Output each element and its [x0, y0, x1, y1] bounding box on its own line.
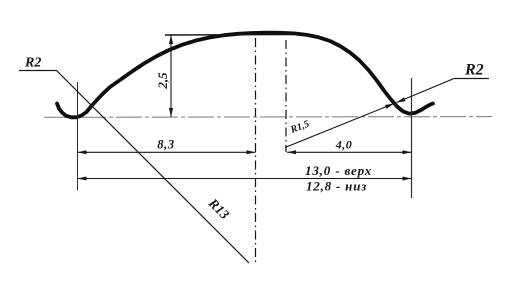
svg-text:2,5: 2,5 — [155, 72, 170, 90]
centerline main — [255, 38, 257, 262]
svg-text:4,0: 4,0 — [335, 138, 353, 152]
leader R2 left — [19, 70, 57, 72]
svg-text:13,0 - верх: 13,0 - верх — [305, 163, 372, 178]
svg-text:R2: R2 — [24, 56, 41, 71]
extension line right — [411, 78, 413, 198]
top extension line — [165, 34, 293, 37]
leader R1,5 — [285, 104, 394, 148]
svg-text:8,3: 8,3 — [157, 138, 174, 152]
profile curve — [57, 33, 433, 118]
svg-text:12,8 - низ: 12,8 - низ — [306, 179, 367, 194]
centerline second — [285, 40, 287, 152]
svg-text:R13: R13 — [205, 195, 232, 222]
radius line R13 — [57, 71, 250, 264]
extension line left — [77, 82, 79, 190]
leader R2 right — [397, 79, 490, 103]
dimension 2,5 line — [169, 35, 173, 117]
dimension 4,0 line — [287, 150, 412, 154]
dimension 13,0/12,8 line — [78, 177, 412, 181]
horizontal axis baseline — [44, 116, 492, 119]
svg-text:R2: R2 — [464, 62, 484, 79]
svg-text:R1,5: R1,5 — [288, 119, 311, 136]
dimension 8,3 line — [78, 150, 256, 154]
